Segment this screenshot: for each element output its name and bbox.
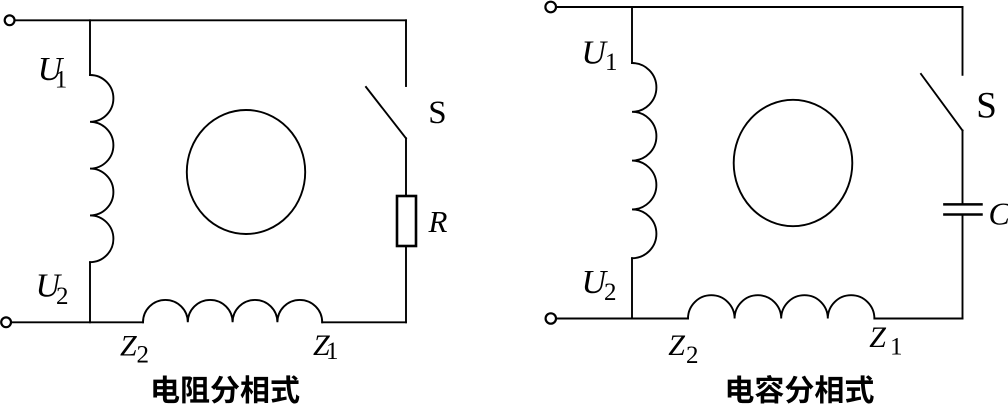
svg-text:S: S xyxy=(428,95,446,131)
svg-text:2: 2 xyxy=(56,283,69,310)
motor rotor circle (left circuit) xyxy=(187,110,305,234)
svg-text:C: C xyxy=(989,196,1008,232)
svg-text:S: S xyxy=(976,86,997,127)
wire: top horizontal (right circuit) xyxy=(557,6,963,8)
svg-text:R: R xyxy=(428,204,448,239)
wire: capacitor to bottom wire (right circuit) xyxy=(962,215,964,319)
switch S blade (left circuit) xyxy=(366,87,406,138)
wire: bottom-right horizontal (right circuit) xyxy=(874,318,962,320)
wire: right branch top (left circuit) xyxy=(405,20,407,86)
svg-text:1: 1 xyxy=(55,67,67,94)
svg-text:1: 1 xyxy=(326,338,339,365)
resistor R body (left circuit) xyxy=(397,196,416,246)
wire: bottom-right horizontal (left circuit) xyxy=(322,321,406,323)
wire: top horizontal (left circuit) xyxy=(15,19,406,21)
inductor start winding Z2-Z1 (right circuit) xyxy=(688,295,874,318)
caption 电容分相式 (right circuit) xyxy=(728,375,754,403)
svg-text:Z: Z xyxy=(120,330,137,363)
wire: drop from top wire to main winding (right circuit) xyxy=(631,7,633,63)
wire: right branch top (right circuit) xyxy=(962,7,964,75)
wire: bottom-left horizontal (right circuit) xyxy=(557,318,688,320)
svg-text:2: 2 xyxy=(604,279,617,306)
svg-text:2: 2 xyxy=(137,341,150,368)
svg-text:Z: Z xyxy=(869,321,886,354)
wire: switch to capacitor (right circuit) xyxy=(962,131,964,205)
inductor main winding U1-U2 (right circuit) xyxy=(632,63,656,258)
terminal top-left (right circuit) xyxy=(545,2,556,13)
inductor start winding Z2-Z1 (left circuit) xyxy=(143,300,322,322)
switch S blade (right circuit) xyxy=(921,74,963,131)
capacitor C bottom plate (right circuit) xyxy=(944,213,981,216)
svg-text:1: 1 xyxy=(605,49,618,76)
capacitor C top plate (right circuit) xyxy=(944,203,981,206)
wire: resistor to bottom wire (left circuit) xyxy=(405,246,407,322)
wire: main winding to bottom wire (right circuit) xyxy=(631,258,633,318)
terminal top-left (left circuit) xyxy=(5,15,15,25)
terminal bottom-left (left circuit) xyxy=(1,317,11,327)
caption 电阻分相式 (left circuit) xyxy=(153,375,179,403)
svg-text:2: 2 xyxy=(686,342,699,369)
wire: main winding to bottom wire (left circuit) xyxy=(89,262,91,322)
wire: bottom-left horizontal (left circuit) xyxy=(12,321,143,323)
inductor main winding U1-U2 (left circuit) xyxy=(90,75,113,262)
terminal bottom-left (right circuit) xyxy=(546,313,556,323)
wire: switch to resistor (left circuit) xyxy=(405,138,407,196)
svg-text:1: 1 xyxy=(890,334,903,361)
motor rotor circle (right circuit) xyxy=(734,100,853,226)
svg-text:Z: Z xyxy=(668,329,685,362)
wire: drop from top wire to main winding (left circuit) xyxy=(89,20,91,75)
